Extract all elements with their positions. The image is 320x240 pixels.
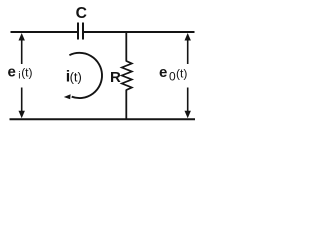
capacitor C1 plates (77, 23, 79, 40)
resistor R branch wire top (125, 32, 127, 62)
node eo arrow down (185, 88, 191, 119)
svg-text:(t): (t) (21, 66, 32, 80)
svg-text:0: 0 (169, 69, 176, 83)
svg-text:i: i (18, 69, 20, 81)
node ei arrow up (19, 33, 25, 64)
wire bottom (10, 118, 196, 120)
label eo(t) (159, 64, 187, 83)
svg-text:R: R (110, 69, 121, 86)
loop current i(t) arc (64, 53, 102, 99)
svg-text:C: C (76, 5, 87, 22)
svg-text:e: e (8, 63, 16, 80)
node ei arrow down (19, 88, 25, 119)
svg-text:(t): (t) (70, 70, 82, 85)
label ei(t) (8, 63, 33, 81)
resistor R zigzag (122, 61, 132, 90)
wire top-left segment (11, 31, 78, 33)
svg-text:e: e (159, 64, 167, 81)
node eo arrow up (185, 33, 191, 64)
svg-text:(t): (t) (176, 66, 187, 80)
resistor R branch wire bottom (125, 90, 127, 120)
label i(t) (66, 69, 82, 86)
wire top-right segment (84, 31, 195, 33)
